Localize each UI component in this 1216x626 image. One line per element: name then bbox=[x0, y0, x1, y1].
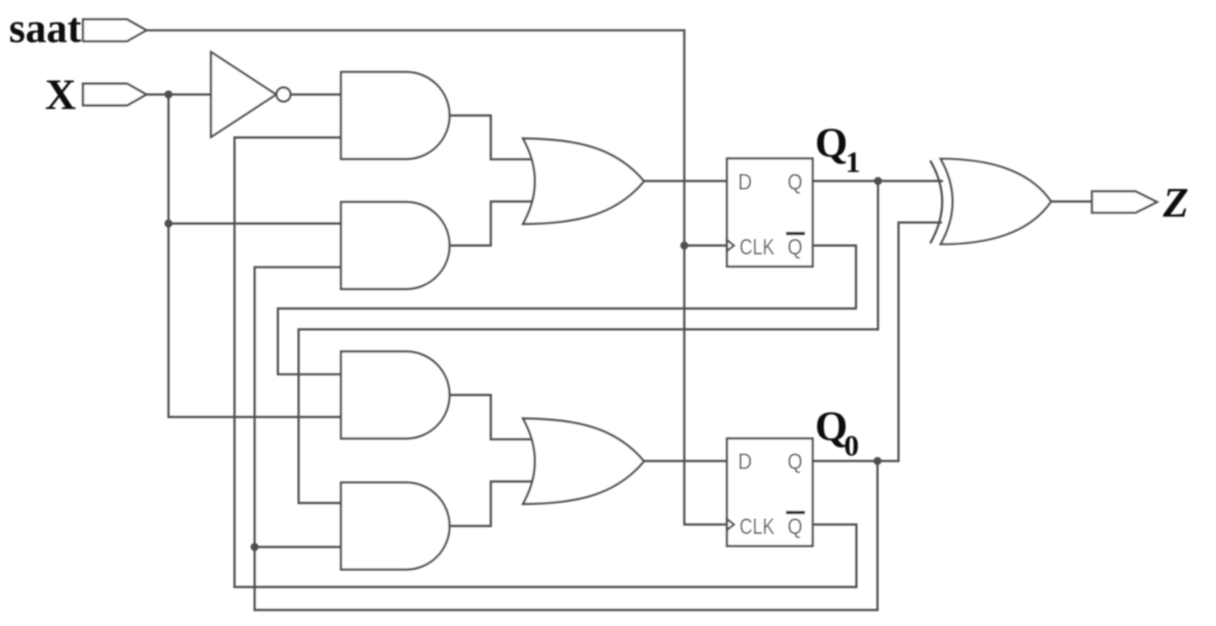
junction X to AND2 bbox=[165, 220, 173, 228]
junction Q0 node bbox=[874, 457, 882, 465]
wire inverter output to AND1 bbox=[291, 93, 342, 95]
svg-text:Z: Z bbox=[1162, 181, 1189, 227]
and gate A2 bbox=[341, 202, 450, 289]
wire AND2 output to OR1 bbox=[450, 202, 533, 246]
junction Q1 node bbox=[874, 177, 882, 185]
wire X to AND2 input bbox=[169, 222, 342, 224]
overbar Qbar FF0 bbox=[786, 511, 805, 514]
svg-text:Q: Q bbox=[788, 514, 803, 539]
svg-text:D: D bbox=[738, 170, 752, 195]
input connector saat bbox=[83, 19, 146, 41]
wire Q0 branch to AND4 input bbox=[255, 546, 341, 548]
svg-text:Q: Q bbox=[788, 170, 803, 195]
wire AND1 output to OR1 bbox=[450, 116, 533, 160]
input connector X bbox=[83, 84, 146, 106]
wire Qbar1 feedback to AND3 bbox=[278, 246, 856, 375]
junction clock FF1 branch bbox=[680, 242, 688, 250]
and gate A4 bbox=[341, 483, 450, 570]
wire OR2 output to FF0 D bbox=[644, 460, 727, 462]
wire X to inverter bbox=[146, 93, 211, 95]
svg-text:Q: Q bbox=[815, 405, 848, 451]
wire X vertical bbox=[169, 95, 342, 418]
svg-text:X: X bbox=[45, 72, 76, 119]
and gate A1 bbox=[341, 72, 450, 159]
wire FF1 Q to XOR input 1 bbox=[813, 180, 943, 182]
junction X node bbox=[165, 91, 173, 99]
wire Q1 feedback to AND4 bbox=[299, 181, 878, 503]
junction Q0 to AND4 bbox=[251, 543, 259, 551]
output connector Z bbox=[1092, 191, 1157, 212]
or gate O2 bbox=[523, 419, 644, 505]
or gate O1 bbox=[523, 139, 644, 225]
wire OR1 output to FF1 D bbox=[644, 180, 727, 182]
wire FF0 Qbar feedback to AND1 bbox=[235, 138, 857, 588]
flip-flop FF1 bbox=[727, 159, 813, 267]
flip-flop FF0 bbox=[727, 439, 813, 547]
svg-text:saat: saat bbox=[9, 6, 81, 52]
svg-text:Q: Q bbox=[788, 235, 803, 260]
xor gate X1 bbox=[930, 159, 1051, 244]
svg-text:CLK: CLK bbox=[740, 514, 775, 539]
wire clock branch to FF1 bbox=[684, 244, 727, 246]
wire AND4 output to OR2 bbox=[450, 482, 533, 527]
wire Q0 feedback to AND2 and AND4 bbox=[255, 267, 878, 610]
svg-text:Q: Q bbox=[788, 449, 803, 474]
svg-text:Q: Q bbox=[815, 121, 848, 167]
wire FF0 Q to XOR input 2 bbox=[813, 223, 942, 462]
wire saat clock net bbox=[146, 30, 727, 524]
wire AND3 output to OR2 bbox=[450, 395, 533, 439]
svg-text:D: D bbox=[738, 449, 752, 474]
svg-text:1: 1 bbox=[846, 146, 861, 179]
and gate A3 bbox=[341, 352, 450, 439]
wire XOR output to Z connector bbox=[1051, 200, 1092, 202]
svg-text:CLK: CLK bbox=[740, 235, 775, 260]
overbar Qbar FF1 bbox=[786, 232, 805, 235]
inverter NOT1 bbox=[211, 52, 291, 137]
svg-text:0: 0 bbox=[844, 430, 859, 463]
